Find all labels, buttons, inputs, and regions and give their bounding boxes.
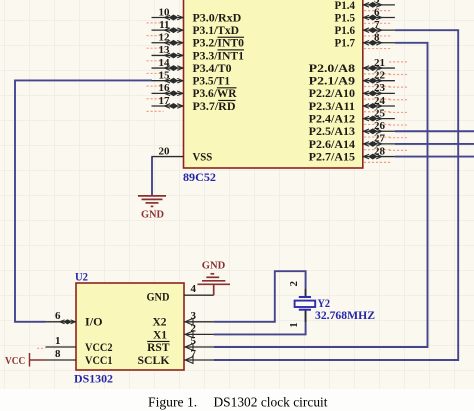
svg-text:P3.4/T0: P3.4/T0 bbox=[193, 63, 232, 75]
svg-text:8: 8 bbox=[55, 348, 61, 360]
svg-text:4: 4 bbox=[191, 283, 197, 295]
svg-text:20: 20 bbox=[159, 145, 171, 157]
svg-text:25: 25 bbox=[374, 107, 386, 119]
svg-text:27: 27 bbox=[374, 133, 386, 145]
svg-text:P1.6: P1.6 bbox=[335, 25, 356, 37]
svg-text:P2.3/A11: P2.3/A11 bbox=[309, 101, 356, 113]
svg-text:2: 2 bbox=[288, 281, 300, 287]
svg-text:I/O: I/O bbox=[85, 317, 103, 329]
svg-text:3: 3 bbox=[191, 310, 197, 322]
svg-text:VCC2: VCC2 bbox=[85, 342, 113, 354]
svg-text:1: 1 bbox=[55, 335, 61, 347]
svg-text:GND: GND bbox=[147, 291, 170, 303]
svg-text:X1: X1 bbox=[153, 329, 167, 341]
svg-text:32.768MHZ: 32.768MHZ bbox=[315, 308, 375, 322]
svg-text:P3.6/WR: P3.6/WR bbox=[193, 88, 238, 100]
svg-text:P1.7: P1.7 bbox=[335, 38, 356, 50]
svg-text:16: 16 bbox=[159, 82, 171, 94]
svg-text:VCC1: VCC1 bbox=[85, 355, 113, 367]
svg-text:89C52: 89C52 bbox=[183, 170, 216, 184]
svg-text:P3.1/TxD: P3.1/TxD bbox=[193, 25, 240, 37]
svg-text:U2: U2 bbox=[75, 269, 88, 283]
svg-text:21: 21 bbox=[374, 57, 385, 69]
svg-text:P3.2/INT0: P3.2/INT0 bbox=[193, 38, 245, 50]
svg-text:VSS: VSS bbox=[193, 151, 213, 163]
svg-text:P2.5/A13: P2.5/A13 bbox=[309, 126, 356, 138]
svg-text:14: 14 bbox=[159, 57, 171, 69]
svg-text:11: 11 bbox=[159, 19, 169, 31]
svg-text:P3.7/RD: P3.7/RD bbox=[193, 101, 236, 113]
svg-text:5: 5 bbox=[374, 0, 380, 6]
svg-text:GND: GND bbox=[202, 260, 226, 271]
svg-text:VCC: VCC bbox=[5, 356, 25, 367]
svg-text:26: 26 bbox=[374, 120, 386, 132]
svg-text:P2.2/A10: P2.2/A10 bbox=[309, 88, 356, 100]
svg-text:28: 28 bbox=[374, 145, 386, 157]
svg-text:P2.7/A15: P2.7/A15 bbox=[309, 151, 356, 163]
svg-text:P2.6/A14: P2.6/A14 bbox=[309, 139, 356, 151]
svg-text:8: 8 bbox=[374, 32, 380, 44]
svg-text:10: 10 bbox=[159, 6, 171, 18]
svg-text:P2.1/A9: P2.1/A9 bbox=[309, 76, 356, 88]
svg-text:P1.5: P1.5 bbox=[335, 12, 356, 24]
svg-text:DS1302 clock circuit: DS1302 clock circuit bbox=[214, 394, 328, 409]
svg-text:P1.4: P1.4 bbox=[335, 0, 356, 12]
svg-text:24: 24 bbox=[374, 95, 386, 107]
svg-text:P3.5/T1: P3.5/T1 bbox=[193, 76, 231, 88]
svg-text:17: 17 bbox=[159, 95, 171, 107]
svg-text:GND: GND bbox=[141, 210, 164, 221]
svg-text:12: 12 bbox=[159, 32, 171, 44]
svg-text:Figure 1.: Figure 1. bbox=[148, 394, 197, 409]
svg-text:P2.4/A12: P2.4/A12 bbox=[309, 114, 356, 126]
svg-text:SCLK: SCLK bbox=[138, 355, 170, 367]
svg-text:15: 15 bbox=[159, 70, 171, 82]
svg-text:P3.3/INT1: P3.3/INT1 bbox=[193, 50, 245, 62]
svg-text:13: 13 bbox=[159, 44, 171, 56]
svg-text:7: 7 bbox=[374, 19, 380, 31]
svg-text:23: 23 bbox=[374, 82, 386, 94]
svg-text:P2.0/A8: P2.0/A8 bbox=[309, 63, 356, 75]
svg-text:7: 7 bbox=[191, 348, 197, 360]
svg-text:X2: X2 bbox=[152, 317, 166, 329]
svg-text:DS1302: DS1302 bbox=[74, 372, 113, 386]
svg-text:6: 6 bbox=[374, 6, 380, 18]
svg-text:22: 22 bbox=[374, 70, 386, 82]
svg-text:6: 6 bbox=[55, 310, 61, 322]
svg-text:1: 1 bbox=[288, 322, 300, 328]
svg-text:P3.0/RxD: P3.0/RxD bbox=[193, 12, 242, 24]
svg-text:5: 5 bbox=[191, 335, 197, 347]
svg-text:RST: RST bbox=[147, 342, 170, 354]
svg-text:2: 2 bbox=[191, 322, 197, 334]
